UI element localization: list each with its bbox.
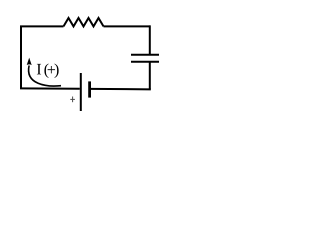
wire left vertical (20, 26, 22, 88)
battery short thick plate (negative) (88, 81, 91, 97)
resistor R (64, 18, 104, 26)
plus sign (48, 66, 55, 73)
paren open (44, 63, 48, 78)
paren close (55, 63, 59, 78)
label I (+) (37, 63, 59, 78)
capacitor C bottom plate (131, 61, 159, 63)
wire top right segment (104, 25, 151, 27)
battery tall plate (positive) (80, 73, 82, 111)
current arrow head (27, 58, 32, 66)
letter I (37, 64, 41, 74)
wire right vertical upper (to capacitor) (149, 25, 151, 54)
wire top left segment (20, 25, 64, 27)
plus label of battery (70, 97, 75, 103)
current arrow shaft (29, 66, 61, 87)
wire right vertical lower (capacitor to bottom) (149, 62, 151, 90)
wire bottom right segment (91, 88, 151, 91)
wire bottom left segment (20, 87, 80, 89)
capacitor C top plate (131, 54, 159, 56)
